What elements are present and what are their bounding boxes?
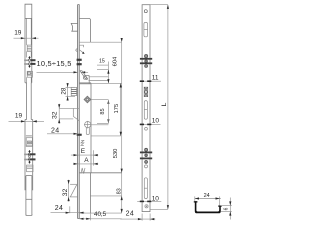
latch bolt bbox=[71, 23, 78, 31]
svg-text:530: 530 bbox=[113, 149, 119, 159]
left rail narrow channel bbox=[25, 83, 33, 191]
right dim column refs bbox=[89, 42, 122, 213]
dim 24 mid-bottom bbox=[51, 205, 85, 214]
U profile bbox=[194, 201, 222, 213]
plate slot 1 bbox=[144, 22, 148, 36]
left rail bottom section bbox=[26, 176, 32, 216]
left rail outline bbox=[25, 4, 32, 83]
frame keeper hatched rect bbox=[71, 87, 76, 95]
middle faceplate bbox=[78, 5, 80, 219]
svg-text:24: 24 bbox=[126, 210, 135, 217]
plate keeper dark box bbox=[144, 87, 148, 96]
plate cam 2 bbox=[140, 148, 152, 163]
plate hole mid bbox=[145, 127, 148, 130]
left rail keeper box 1 bbox=[27, 71, 32, 77]
svg-text:604: 604 bbox=[113, 56, 119, 66]
dim E bbox=[71, 148, 98, 166]
ref 195.9 bbox=[90, 195, 121, 197]
hook bolt bottom bbox=[70, 184, 78, 197]
dim 40,5 bbox=[79, 211, 121, 221]
dim 32 mid bbox=[52, 104, 80, 124]
right plate outline bbox=[142, 5, 150, 212]
svg-text:40,5: 40,5 bbox=[94, 211, 107, 218]
svg-text:19: 19 bbox=[14, 29, 22, 36]
keeper mid (slanted) bbox=[80, 71, 89, 84]
left rail keeper box 3 bbox=[27, 165, 33, 172]
svg-text:10: 10 bbox=[152, 118, 160, 125]
dim 28 bbox=[61, 83, 75, 100]
dim 10 upper bbox=[140, 118, 161, 126]
dim A bbox=[74, 157, 99, 165]
plate hole below cam2 bbox=[145, 165, 148, 168]
svg-text:85: 85 bbox=[100, 108, 106, 114]
bottom housing bbox=[89, 173, 91, 213]
follower bbox=[84, 96, 91, 103]
svg-text:28: 28 bbox=[61, 87, 68, 94]
dim 6 profile height bbox=[221, 198, 232, 220]
dim 24 mid (y135) bbox=[47, 128, 78, 135]
svg-text:19: 19 bbox=[15, 112, 23, 119]
svg-text:L: L bbox=[161, 102, 168, 106]
dim L bbox=[150, 5, 169, 210]
dim 19 lower bbox=[9, 112, 45, 122]
faceplate tick at 134 bbox=[77, 134, 82, 136]
604 top ref line bbox=[79, 41, 121, 43]
plate slot 3 bbox=[144, 178, 147, 199]
svg-text:11: 11 bbox=[152, 74, 159, 81]
dim 24 profile bbox=[195, 193, 221, 205]
svg-text:E: E bbox=[81, 148, 86, 155]
dim 24 right plate bbox=[120, 210, 155, 220]
dim 19 top bbox=[14, 29, 39, 39]
svg-text:24: 24 bbox=[55, 205, 64, 212]
left rail cam 2 bbox=[24, 150, 35, 164]
svg-text:32: 32 bbox=[62, 188, 69, 196]
plate hole bottom bbox=[145, 205, 148, 208]
svg-text:15: 15 bbox=[99, 59, 105, 65]
housing bottom line bbox=[79, 212, 121, 214]
bottom hatch zigzag bbox=[81, 168, 85, 174]
svg-text:175: 175 bbox=[114, 104, 120, 114]
dim 32 bbox=[62, 180, 70, 202]
top case box bbox=[79, 18, 90, 42]
svg-text:6: 6 bbox=[224, 207, 230, 210]
dim 11 bbox=[140, 74, 161, 82]
dim 10 lower bbox=[137, 195, 161, 202]
svg-text:A: A bbox=[84, 157, 89, 164]
hook bolt top bbox=[76, 45, 85, 54]
left rail cam 1 bbox=[24, 56, 35, 68]
cylinder bbox=[84, 121, 91, 134]
plate cam 1 bbox=[140, 54, 152, 67]
left rail hatch box 1 bbox=[27, 45, 31, 51]
spring squiggle bbox=[81, 140, 84, 145]
svg-text:10,5÷15,5: 10,5÷15,5 bbox=[37, 59, 72, 68]
left rail hatch box 2 bbox=[26, 138, 32, 147]
main case box bbox=[79, 83, 91, 173]
case bottom line / 83 top ref bbox=[79, 172, 121, 174]
faceplate section ticks bbox=[77, 59, 82, 61]
svg-text:83: 83 bbox=[116, 188, 122, 194]
dim 10,5-15,5 bbox=[37, 59, 89, 74]
svg-text:32: 32 bbox=[52, 111, 59, 119]
plate hole top bbox=[144, 10, 147, 13]
plate slot 2 bbox=[144, 101, 147, 120]
middle hook bolt bbox=[73, 108, 79, 120]
